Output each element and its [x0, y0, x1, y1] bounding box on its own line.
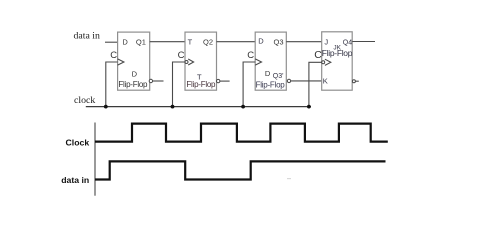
wire FF3 Q3 to FF4 J	[286, 41, 321, 43]
FF4 inverted output bubble	[352, 80, 355, 83]
svg-text:Q1: Q1	[136, 37, 146, 46]
junction at FF1 riser	[104, 105, 108, 109]
svg-text:T: T	[188, 38, 193, 47]
svg-text:C: C	[247, 50, 254, 61]
FF1 inverted output bubble	[149, 79, 152, 82]
svg-text:Clock: Clock	[66, 137, 90, 147]
svg-text:Flip-Flop: Flip-Flop	[322, 48, 353, 58]
svg-text:D: D	[132, 70, 138, 79]
svg-text:C: C	[314, 49, 322, 61]
FF2 clock bubble	[185, 61, 188, 64]
svg-text:Flip-Flop: Flip-Flop	[118, 80, 148, 89]
node data in waveform label	[61, 175, 89, 185]
svg-text:Flip-Flop: Flip-Flop	[256, 80, 286, 89]
data in waveform	[95, 161, 386, 179]
svg-text:Q3': Q3'	[273, 73, 284, 80]
svg-text:D: D	[265, 69, 271, 78]
FF2 clock edge triangle	[188, 59, 193, 65]
FF3 clock edge triangle	[255, 59, 261, 65]
FF4 clock bubble	[322, 61, 325, 64]
svg-text:C: C	[110, 50, 117, 61]
stray faint mark	[287, 178, 291, 180]
FF1 clock edge triangle	[118, 59, 124, 65]
svg-text:clock: clock	[74, 95, 95, 106]
FF4 box	[322, 32, 353, 90]
junction at FF4 riser	[307, 105, 311, 109]
wire data in to FF1 D	[105, 41, 118, 43]
wire FF2 Q2 to FF3 D	[217, 41, 256, 43]
wire clock bus	[86, 106, 311, 108]
FF2 box	[185, 32, 217, 90]
wire FF2 Qbar stub	[220, 80, 230, 82]
FF3 box	[255, 32, 286, 90]
node clock label	[74, 95, 95, 106]
wire FF1 Qbar stub	[153, 80, 164, 82]
FF4 clock edge triangle	[325, 59, 331, 65]
D flip-flop FF3	[247, 32, 290, 90]
wire FF4 Q4 output	[352, 41, 375, 43]
wire FF1 Q1 to FF2 T	[150, 41, 185, 43]
FF1 box	[118, 32, 150, 90]
svg-text:Q3: Q3	[274, 37, 284, 46]
svg-text:Q2: Q2	[203, 38, 213, 47]
wire clock riser to FF1 C	[106, 62, 118, 107]
node Clock waveform label	[66, 137, 90, 147]
Clock waveform	[95, 124, 388, 142]
wire clock riser to FF4 C	[309, 62, 322, 106]
FF2 inverted output bubble	[217, 79, 220, 82]
svg-text:Q4: Q4	[343, 40, 352, 47]
wire clock riser to FF3 C	[243, 62, 255, 107]
wire FF3 Q3' to FF4 K	[291, 80, 322, 82]
JK flip-flop FF4	[314, 32, 355, 90]
node data in label	[74, 31, 100, 42]
D flip-flop FF1	[110, 32, 152, 90]
svg-text:C: C	[178, 50, 185, 61]
junction at FF2 riser	[171, 105, 175, 109]
svg-text:data in: data in	[74, 31, 100, 42]
junction at FF3 riser	[241, 105, 245, 109]
svg-text:data in: data in	[61, 175, 89, 185]
wire FF4 Qbar stub	[355, 80, 358, 82]
svg-text:J: J	[324, 38, 328, 47]
T flip-flop FF2	[178, 32, 220, 90]
wire clock riser to FF2 C	[173, 62, 186, 107]
svg-text:K: K	[323, 77, 328, 86]
svg-text:D: D	[258, 36, 264, 45]
FF3 inverted output bubble	[287, 79, 290, 82]
svg-text:Flip-Flop: Flip-Flop	[186, 80, 216, 89]
svg-text:D: D	[122, 37, 128, 46]
timing diagram axis	[94, 123, 96, 196]
